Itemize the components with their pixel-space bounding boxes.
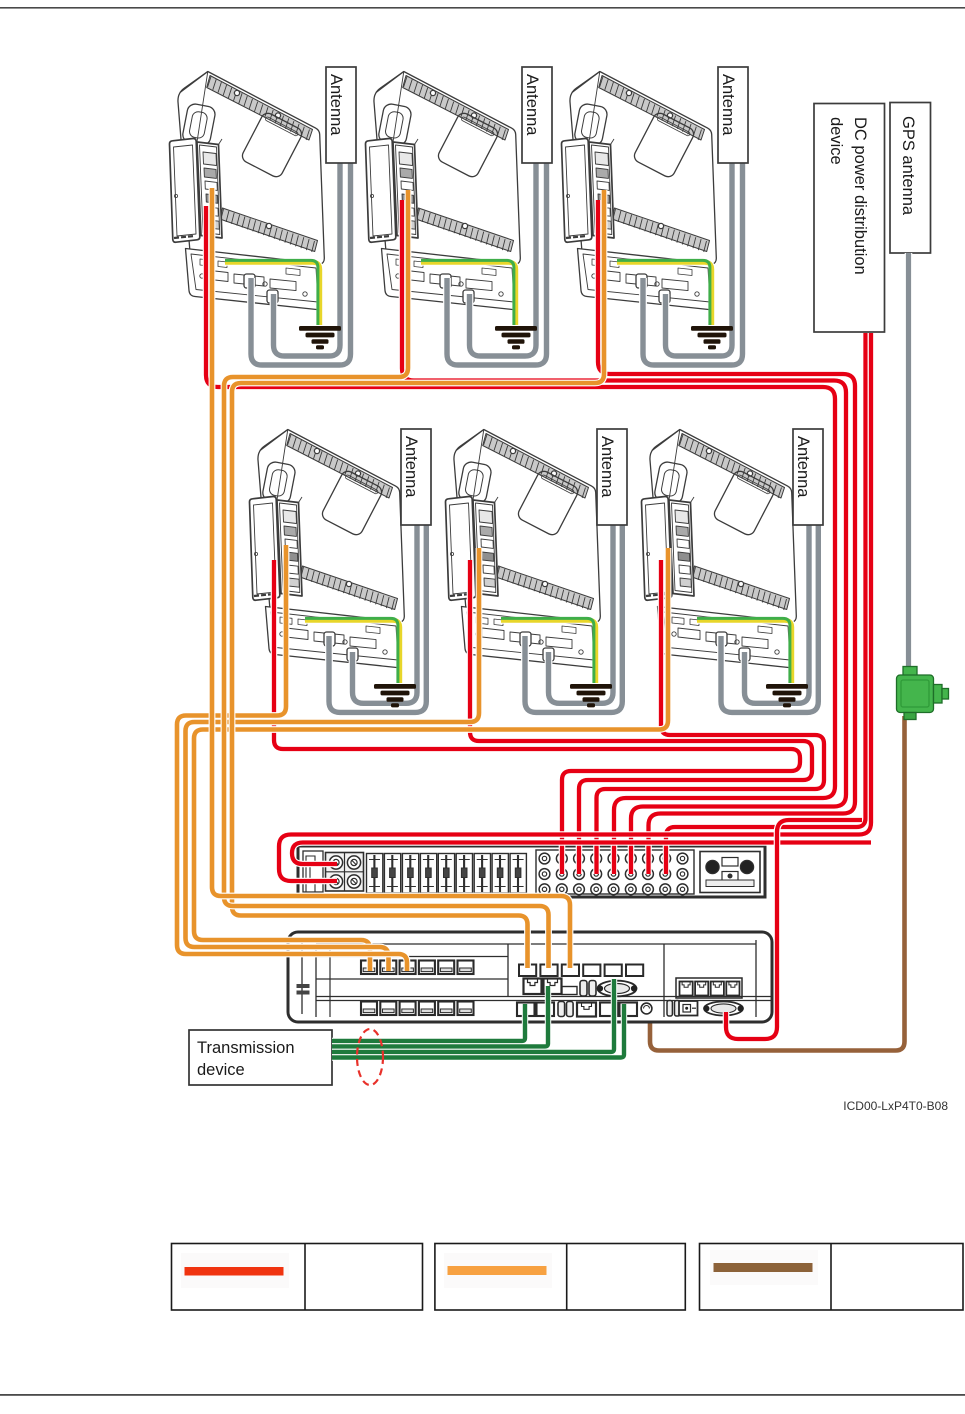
RRU module 2 bbox=[366, 72, 521, 310]
wire E1 B bbox=[332, 986, 548, 1047]
ground wire (yellow/green) RRU3 bbox=[617, 262, 712, 325]
GPS antenna box bbox=[890, 103, 931, 254]
ground wire (yellow/green) RRU6 bbox=[697, 620, 792, 683]
label: Antenna 4 bbox=[401, 429, 431, 525]
wire optical RRU1 bbox=[212, 188, 570, 968]
ground wire (yellow/green) RRU5 bbox=[501, 620, 596, 683]
svg-text:DC power distribution: DC power distribution bbox=[851, 117, 869, 275]
wire antenna feeder 11 bbox=[721, 520, 818, 712]
wire RRU6 power bbox=[597, 560, 825, 874]
legend swatch: brown GPS cable bbox=[710, 1250, 818, 1285]
legend swatch: red power cable bbox=[181, 1253, 289, 1288]
legend table bbox=[172, 1244, 964, 1311]
wire monitor cable bbox=[726, 820, 862, 1039]
wire antenna feeder 1 bbox=[251, 162, 351, 365]
label: Antenna 2 bbox=[522, 67, 552, 163]
ground symbol 5 bbox=[570, 684, 612, 707]
wire optical RRU5 bbox=[186, 548, 480, 971]
wire optical RRU3 bbox=[232, 190, 604, 968]
wire antenna feeder 3 bbox=[447, 162, 547, 365]
brown GPS jumper cable bbox=[650, 716, 905, 1051]
wire E1 D bbox=[332, 1004, 624, 1058]
top rule bbox=[0, 7, 965, 9]
wire antenna feeder 12 bbox=[745, 520, 810, 703]
ground symbol 4 bbox=[374, 684, 416, 707]
wire DC feed 1 bbox=[666, 333, 866, 874]
wire antenna feeder 5 bbox=[643, 162, 743, 365]
RRU module 6 bbox=[642, 430, 797, 668]
ground symbol 6 bbox=[766, 684, 808, 707]
wire RRU2 power bbox=[402, 200, 846, 874]
label: Antenna 5 bbox=[597, 429, 627, 525]
wire E1 C bbox=[332, 979, 614, 1052]
wire E1 A bbox=[332, 1004, 525, 1041]
wire RRU3 power bbox=[598, 200, 855, 874]
ground wire (yellow/green) RRU2 bbox=[421, 262, 516, 325]
wire antenna feeder 2 bbox=[274, 162, 341, 356]
wire RRU4 power bbox=[274, 560, 800, 874]
RRU module 4 bbox=[250, 430, 405, 668]
label: Antenna 6 bbox=[793, 429, 823, 525]
wire DC feed 2 bbox=[279, 333, 871, 881]
svg-text:GPS antenna: GPS antenna bbox=[899, 116, 917, 216]
surge arrester (green) bbox=[897, 667, 949, 720]
Transmission device label box bbox=[189, 1030, 332, 1085]
ground wire (yellow/green) RRU1 bbox=[225, 262, 320, 325]
svg-text:device: device bbox=[827, 117, 845, 165]
BBU shelf bbox=[288, 932, 772, 1022]
ground wire (yellow/green) RRU4 bbox=[305, 620, 400, 683]
wire antenna feeder 7 bbox=[329, 520, 426, 712]
wire antenna feeder 6 bbox=[666, 162, 733, 356]
svg-text:ICD00-LxP4T0-B08: ICD00-LxP4T0-B08 bbox=[843, 1099, 948, 1113]
legend swatch: orange optical cable bbox=[444, 1253, 552, 1288]
GPS feeder cable (gray) bbox=[905, 253, 913, 668]
wire RRU1 power bbox=[206, 206, 835, 874]
wire RRU5 power bbox=[470, 560, 812, 874]
wire antenna feeder 10 bbox=[549, 520, 614, 703]
ground symbol 2 bbox=[495, 326, 537, 349]
DC distribution panel bbox=[298, 846, 765, 897]
label: Antenna 1 bbox=[326, 67, 356, 163]
wire antenna feeder 8 bbox=[353, 520, 418, 703]
svg-text:device: device bbox=[197, 1061, 245, 1079]
bottom rule bbox=[0, 1394, 965, 1396]
DC power distribution device box bbox=[814, 104, 885, 333]
wire optical RRU2 bbox=[224, 190, 549, 968]
wire optical RRU4 bbox=[177, 545, 407, 971]
RRU module 3 bbox=[562, 72, 717, 310]
wire antenna feeder 4 bbox=[470, 162, 537, 356]
wire antenna feeder 9 bbox=[525, 520, 622, 712]
wire DC feed 3 bbox=[292, 843, 871, 865]
ground symbol 1 bbox=[299, 326, 341, 349]
svg-text:Transmission: Transmission bbox=[197, 1039, 295, 1057]
RRU module 1 bbox=[170, 72, 325, 310]
wire optical RRU6 bbox=[194, 548, 668, 971]
RRU module 5 bbox=[446, 430, 601, 668]
dashed grouping ellipse bbox=[357, 1029, 383, 1085]
ground symbol 3 bbox=[691, 326, 733, 349]
label: Antenna 3 bbox=[718, 67, 748, 163]
